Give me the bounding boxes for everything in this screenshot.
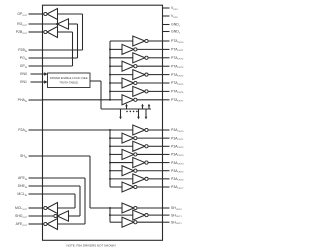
arrow up x126.5 <box>125 104 128 107</box>
svg-text:P3AOUT0: P3AOUT0 <box>171 128 184 133</box>
wire route MCL_IN vertical <box>74 194 76 208</box>
pin GND2 <box>163 31 170 33</box>
wire EN1 to block <box>31 81 47 83</box>
pin P3A0OUT <box>163 129 170 131</box>
arrowhead EN0 <box>44 72 47 75</box>
wire route GP_IN vertical <box>72 32 74 66</box>
buffer P3A4 <box>110 162 133 164</box>
svg-text:SHOUT0: SHOUT0 <box>171 206 182 211</box>
junction PHA feed <box>109 99 111 101</box>
wire GP_IN horizontal <box>43 65 73 67</box>
buffer PTA7 <box>110 99 122 101</box>
wire AFE_IN horizontal <box>43 177 86 179</box>
pin SH0OUT <box>163 207 170 209</box>
arrow up x149 <box>148 104 151 107</box>
svg-text:P3AOUT2: P3AOUT2 <box>171 144 184 149</box>
svg-text:PTAOUT4: PTAOUT4 <box>171 73 184 78</box>
wire PHA_IN feed <box>43 99 111 101</box>
wire PTA0 output <box>148 40 163 42</box>
svg-text:PGIN: PGIN <box>20 56 28 61</box>
svg-text:PTAOUT0: PTAOUT0 <box>171 39 184 44</box>
pin P3A7OUT <box>163 186 170 188</box>
wire P3A6 output <box>148 178 163 180</box>
buffer P3A6 <box>110 178 133 180</box>
pin P3A6OUT <box>163 178 170 180</box>
buffer SH2 <box>110 221 122 223</box>
inverter U6 (AFE_OUT) <box>47 219 58 230</box>
junction bus PTA row1 <box>109 48 111 50</box>
arrow down x146 <box>145 117 148 120</box>
svg-text:P3AOUT7: P3AOUT7 <box>171 185 184 190</box>
inverter U1 (GP_OUT) <box>47 9 58 20</box>
bubble P3A6 <box>145 177 148 180</box>
bubble PTA1 <box>134 48 137 51</box>
junction bus P3A row4 <box>109 162 111 164</box>
bubble P3A1 <box>134 137 137 140</box>
junction bus P3A row5 <box>109 170 111 172</box>
buffer P3A0 <box>110 129 133 131</box>
junction bus P3A row1 <box>109 137 111 139</box>
wire P3A1 output <box>137 137 163 139</box>
wire PTA4 output <box>148 74 163 76</box>
wire SH_IN feed <box>90 207 110 209</box>
bubble U5 <box>54 214 57 217</box>
wire U2 input <box>69 23 78 25</box>
wire P3A4 output <box>148 162 163 164</box>
wire PTA7 output <box>137 99 163 101</box>
enable stub up x149 <box>148 106 150 109</box>
wire SH0 output <box>137 207 163 209</box>
svg-text:EN0: EN0 <box>20 72 27 76</box>
svg-text:P3AOUT4: P3AOUT4 <box>171 161 184 166</box>
arrow up x142.5 <box>141 104 144 107</box>
bus P3A input <box>109 130 111 187</box>
wire P2A_IN feed <box>43 129 111 131</box>
svg-text:DRIVER ENABLE LOGIC (SEE: DRIVER ENABLE LOGIC (SEE <box>50 76 88 80</box>
svg-text:GPIN: GPIN <box>20 64 28 69</box>
pin PTA7OUT <box>163 99 170 101</box>
bubble PTA6 <box>145 90 148 93</box>
arrowhead EN1 <box>44 80 47 83</box>
wire P3A3 output <box>137 153 163 155</box>
pin P3A2OUT <box>163 145 170 147</box>
junction bus PTA row6 <box>109 90 111 92</box>
wire P3A2 output <box>148 145 163 147</box>
svg-text:P2AIN: P2AIN <box>18 128 27 133</box>
buffer PTA5 <box>110 82 122 84</box>
wire PTA1 output <box>137 48 163 50</box>
wire U4 input <box>58 207 76 209</box>
pin P3A1OUT <box>163 137 170 139</box>
svg-text:VDD1: VDD1 <box>171 6 179 11</box>
pin PTA6OUT <box>163 90 170 92</box>
enable stub down x138.5 <box>138 109 140 117</box>
svg-text:PTAOUT3: PTAOUT3 <box>171 64 184 69</box>
wire enable vertical <box>100 81 102 109</box>
bubble U1 <box>44 12 47 15</box>
buffer PTA6 <box>110 90 133 92</box>
pin SH1OUT <box>163 214 170 216</box>
inverter U3 (P2B_OUT) <box>47 27 58 38</box>
wire GP_OUT to U1 <box>29 13 44 15</box>
wire SH2 output <box>137 221 163 223</box>
buffer P3A2 <box>110 145 133 147</box>
bus SH input <box>109 208 111 222</box>
svg-text:PTAOUT2: PTAOUT2 <box>171 56 184 61</box>
buffer SH1 <box>110 214 133 216</box>
buffer PTA2 <box>110 57 133 59</box>
pin VDD1 <box>163 7 170 9</box>
wire P3A5 output <box>137 170 163 172</box>
buffer PTA3 <box>110 65 122 67</box>
svg-text:P2BOUT: P2BOUT <box>16 30 28 35</box>
pin P3A5OUT <box>163 170 170 172</box>
buffer P3A3 <box>110 153 122 155</box>
enable stub down x146 <box>145 109 147 117</box>
inverter U4 (MCL_OUT) <box>47 203 58 214</box>
buffer PTA4 <box>110 74 133 76</box>
wire U3 input <box>58 31 73 33</box>
arrow down x120.5 <box>119 117 122 120</box>
pin PTA1OUT <box>163 48 170 50</box>
bubble P3A7 <box>134 185 137 188</box>
driver enable logic block <box>48 73 91 88</box>
bubble U6 <box>44 222 47 225</box>
junction bus P3A row3 <box>109 153 111 155</box>
svg-text:PHAIN: PHAIN <box>18 98 28 103</box>
pin VDD2 <box>163 15 170 17</box>
bubble PTA4 <box>145 73 148 76</box>
svg-text:MCLOUT: MCLOUT <box>15 206 28 211</box>
wire RG_OUT to U2 <box>29 23 58 25</box>
wire SHE_IN horizontal <box>43 185 81 187</box>
junction bus SH row1 <box>109 214 111 216</box>
bubble P3A0 <box>145 128 148 131</box>
bubble PTA0 <box>145 39 148 42</box>
wire MCL_OUT to U4 <box>29 207 44 209</box>
bubble SH1 <box>145 214 148 217</box>
buffer P3A7 <box>110 186 122 188</box>
junction P2A feed <box>109 129 111 131</box>
svg-text:P3AOUT3: P3AOUT3 <box>171 153 184 158</box>
svg-text:GPOUT: GPOUT <box>17 12 27 17</box>
pin P3A4OUT <box>163 162 170 164</box>
wire P3A0 output <box>148 129 163 131</box>
buffer SH0 <box>110 207 122 209</box>
enable stub up x126.5 <box>126 106 128 109</box>
svg-text:VDD2: VDD2 <box>171 14 179 19</box>
wire PTA5 output <box>137 82 163 84</box>
wire PTA3 output <box>137 65 163 67</box>
junction U2 tip <box>56 23 58 25</box>
pin PTA4OUT <box>163 74 170 76</box>
bubble P3A3 <box>134 153 137 156</box>
pin PTA2OUT <box>163 57 170 59</box>
inverter U5 (SHD_OUT) <box>57 211 68 221</box>
junction bus SH row0 <box>109 207 111 209</box>
bubble PTA7 <box>134 98 137 101</box>
junction bus PTA row4 <box>109 74 111 76</box>
bubble P3A5 <box>134 169 137 172</box>
svg-text:P2BIN: P2BIN <box>18 48 27 53</box>
svg-text:RGOUT: RGOUT <box>17 22 28 27</box>
svg-text:EN1: EN1 <box>20 80 27 84</box>
pin P3A3OUT <box>163 153 170 155</box>
svg-text:AFEOUT: AFEOUT <box>16 222 28 227</box>
wire PG_IN horizontal <box>43 57 78 59</box>
IC block outline <box>43 5 163 240</box>
wire SHD_OUT to U5 <box>29 215 54 217</box>
svg-text:SHDOUT: SHDOUT <box>15 214 28 219</box>
bubble PTA5 <box>134 81 137 84</box>
junction bus PTA row3 <box>109 65 111 67</box>
pin GND1 <box>163 24 170 26</box>
wire P2B_OUT to U3 <box>29 31 44 33</box>
junction bus P3A row6 <box>109 178 111 180</box>
wire U1 input <box>58 13 83 15</box>
buffer P3A5 <box>110 170 122 172</box>
wire U4-U6 base tie <box>57 214 59 219</box>
svg-text:SHEIN: SHEIN <box>18 184 28 189</box>
wire enable out of block <box>90 80 101 82</box>
svg-text:P3AOUT5: P3AOUT5 <box>171 169 184 174</box>
svg-text:SHIN: SHIN <box>20 154 27 159</box>
wire route PG_IN vertical <box>77 24 79 58</box>
bubble PTA3 <box>134 65 137 68</box>
svg-text:SHOUT2: SHOUT2 <box>171 220 182 225</box>
svg-text:PTAOUT5: PTAOUT5 <box>171 81 184 86</box>
buffer PTA0 <box>110 40 133 42</box>
enable rail <box>101 108 151 110</box>
buffer U2 (RG_OUT) <box>57 19 68 29</box>
svg-text:PTAOUT6: PTAOUT6 <box>171 90 184 95</box>
bubble SH0 <box>134 206 137 209</box>
junction bus PTA row2 <box>109 57 111 59</box>
svg-text:P3AOUT6: P3AOUT6 <box>171 177 184 182</box>
wire U5 input <box>69 215 81 217</box>
enable stub up x142.5 <box>142 106 144 109</box>
wire SH_IN vertical <box>89 156 91 208</box>
wire AFE_OUT to U6 <box>29 223 44 225</box>
wire SH1 output <box>148 214 163 216</box>
svg-text:TRUTH TABLE): TRUTH TABLE) <box>59 81 78 85</box>
junction bus P3A row2 <box>109 145 111 147</box>
pin PTA0OUT <box>163 40 170 42</box>
wire EN0 to block <box>31 73 47 75</box>
wire route P2B_IN vertical <box>82 14 84 50</box>
svg-text:GND2: GND2 <box>171 30 181 35</box>
wire SH_IN horizontal <box>43 155 91 157</box>
enable stub down x120.5 <box>120 109 122 117</box>
bubble P3A2 <box>145 145 148 148</box>
svg-text:PTAOUT7: PTAOUT7 <box>171 98 184 103</box>
svg-text:GND1: GND1 <box>171 23 181 28</box>
ellipsis dots enable rail <box>126 111 128 113</box>
wire U6 input <box>58 223 86 225</box>
wire MCL_IN horizontal <box>43 193 76 195</box>
svg-text:PTAOUT1: PTAOUT1 <box>171 48 184 53</box>
pin PTA3OUT <box>163 65 170 67</box>
bubble U4 <box>44 206 47 209</box>
junction bus PTA row5 <box>109 82 111 84</box>
wire route AFE_IN vertical <box>84 178 86 224</box>
buffer P3A1 <box>110 137 122 139</box>
buffer PTA1 <box>110 48 122 50</box>
wire PTA2 output <box>148 57 163 59</box>
arrow down x138.5 <box>137 117 140 120</box>
wire U1-U3 base tie <box>57 20 59 27</box>
svg-text:P3AOUT1: P3AOUT1 <box>171 136 184 141</box>
svg-text:MCLIN: MCLIN <box>17 192 27 197</box>
bubble SH2 <box>134 221 137 224</box>
wire P3A7 output <box>137 186 163 188</box>
pin SH2OUT <box>163 221 170 223</box>
wire route SHE_IN vertical <box>79 186 81 216</box>
pin PTA5OUT <box>163 82 170 84</box>
wire PTA6 output <box>148 90 163 92</box>
wire P2B_IN horizontal <box>43 49 83 51</box>
bubble U3 <box>44 30 47 33</box>
bubble P3A4 <box>145 161 148 164</box>
bus PTA input <box>109 41 111 100</box>
svg-text:AFEIN: AFEIN <box>18 176 27 181</box>
svg-text:NOTE: P5A DRIVERS NOT SHOWN: NOTE: P5A DRIVERS NOT SHOWN <box>66 244 115 248</box>
bubble PTA2 <box>145 56 148 59</box>
svg-text:SHOUT1: SHOUT1 <box>171 213 182 218</box>
